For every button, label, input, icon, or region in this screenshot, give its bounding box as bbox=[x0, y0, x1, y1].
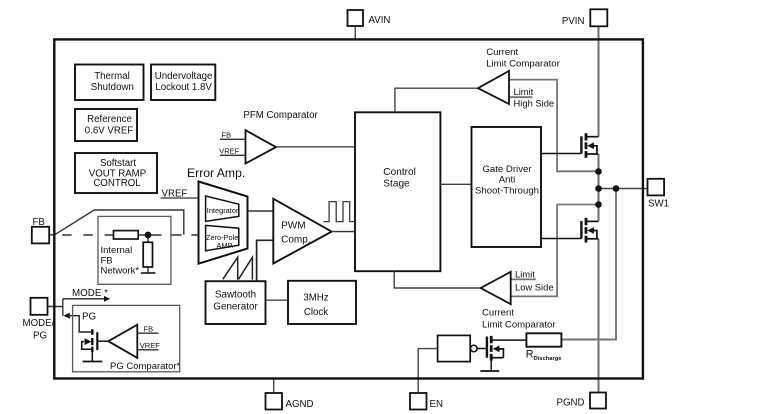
svg-text:Shutdown: Shutdown bbox=[91, 82, 134, 93]
svg-text:Sawtooth: Sawtooth bbox=[215, 289, 256, 300]
svg-text:Current: Current bbox=[486, 47, 518, 58]
svg-text:Anti: Anti bbox=[499, 174, 516, 185]
svg-text:PG: PG bbox=[82, 311, 96, 322]
svg-text:CONTROL: CONTROL bbox=[93, 178, 141, 189]
svg-text:SW1: SW1 bbox=[648, 199, 669, 210]
svg-text:Low Side: Low Side bbox=[515, 281, 554, 292]
svg-text:Current: Current bbox=[482, 308, 514, 319]
svg-text:0.6V VREF: 0.6V VREF bbox=[85, 125, 134, 136]
svg-text:PGND: PGND bbox=[557, 398, 585, 409]
svg-text:PWM: PWM bbox=[281, 221, 305, 232]
svg-text:Control: Control bbox=[383, 167, 416, 178]
svg-text:FB: FB bbox=[222, 131, 232, 140]
svg-text:AGND: AGND bbox=[286, 399, 314, 410]
svg-text:PVIN: PVIN bbox=[562, 16, 585, 27]
svg-text:3MHz: 3MHz bbox=[303, 293, 328, 304]
svg-text:Generator: Generator bbox=[213, 301, 258, 312]
svg-text:Limit: Limit bbox=[515, 269, 535, 280]
svg-text:MODE/: MODE/ bbox=[23, 318, 55, 329]
svg-text:Integrator: Integrator bbox=[207, 206, 239, 215]
svg-text:FB: FB bbox=[33, 217, 45, 228]
svg-text:PG Comparator*: PG Comparator* bbox=[110, 361, 181, 372]
svg-text:Discharge: Discharge bbox=[534, 356, 563, 362]
svg-text:PG: PG bbox=[33, 331, 47, 342]
svg-text:PFM Comparator: PFM Comparator bbox=[243, 110, 318, 121]
svg-text:Limit Comparator: Limit Comparator bbox=[486, 58, 560, 69]
svg-text:AMP.: AMP. bbox=[216, 241, 233, 250]
svg-text:MODE *: MODE * bbox=[72, 288, 108, 299]
svg-text:Reference: Reference bbox=[87, 114, 132, 125]
svg-text:Undervoltage: Undervoltage bbox=[155, 71, 213, 82]
svg-text:Softstart: Softstart bbox=[100, 158, 136, 169]
svg-text:Stage: Stage bbox=[383, 179, 410, 190]
svg-text:VREF: VREF bbox=[140, 341, 160, 350]
svg-text:Network*: Network* bbox=[101, 266, 140, 277]
svg-text:High Side: High Side bbox=[514, 98, 555, 109]
svg-text:Comp.: Comp. bbox=[281, 235, 310, 246]
svg-text:Clock: Clock bbox=[304, 307, 328, 318]
svg-text:Error Amp.: Error Amp. bbox=[187, 166, 245, 180]
svg-text:Limit: Limit bbox=[514, 86, 534, 97]
svg-text:Thermal: Thermal bbox=[94, 71, 130, 82]
svg-text:Shoot-Through: Shoot-Through bbox=[475, 186, 539, 197]
svg-text:EN: EN bbox=[430, 399, 443, 410]
svg-text:VREF: VREF bbox=[219, 146, 239, 155]
svg-text:AVIN: AVIN bbox=[369, 15, 391, 26]
svg-text:Limit Comparator: Limit Comparator bbox=[482, 319, 556, 330]
svg-text:FB: FB bbox=[144, 324, 154, 333]
svg-text:Lockout 1.8V: Lockout 1.8V bbox=[155, 82, 212, 93]
